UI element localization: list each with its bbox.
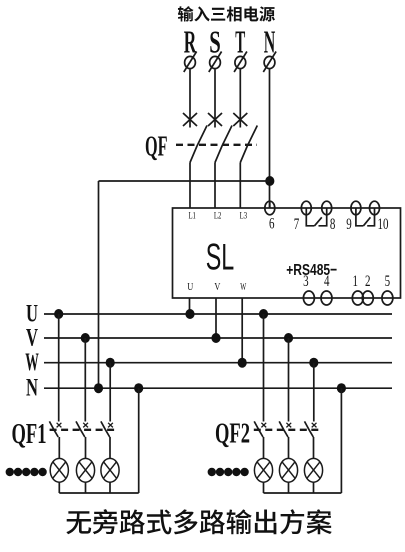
svg-text:1: 1 [353,273,359,290]
svg-text:10: 10 [378,216,389,233]
input terminal R (circle with slash) [184,52,197,73]
wire QF2 pole 2 drop from bus [288,338,290,422]
svg-text:V: V [214,282,220,293]
wire QF lever to L-terminal T [239,163,241,209]
wire QF lever to L-terminal R [189,163,191,209]
svg-text:7: 7 [294,216,300,233]
input terminal T (circle with slash) [234,52,247,73]
wire SL output U to U bus [189,298,191,314]
junction node N to QF2 return [337,383,346,393]
breaker QF mechanical linkage (dashed) [176,144,257,146]
junction node V source [211,333,220,343]
wire QF1 pole 3 lever to lamp [109,437,111,458]
terminal 7 [301,201,311,215]
wire S terminal to breaker contact [214,70,216,128]
svg-text:S: S [209,23,221,59]
controller SL box [173,208,401,298]
junction node V to QF1 [81,333,90,343]
input terminal N (circle with slash) [263,52,276,73]
svg-text:L2: L2 [214,212,222,222]
svg-text:T: T [235,23,245,59]
junction node N top [265,176,274,186]
svg-text:U: U [187,282,193,293]
ellipsis dots (QF2 more outputs) [208,468,249,476]
wire N bus to QF2 rail [340,388,342,493]
terminal 2 [362,291,373,305]
bus line U [44,313,392,315]
lamp QF1 output 3 [101,458,119,482]
wire lamp QF2-3 to neutral rail [313,482,315,493]
svg-text:2: 2 [365,273,371,290]
svg-text:9: 9 [346,216,352,233]
svg-text:QF1: QF1 [12,418,47,450]
wire T terminal to breaker contact [239,70,241,128]
wire lamp QF2-2 to neutral rail [288,482,290,493]
wire N feed down to N bus [98,181,100,388]
wire N junction to left [99,180,270,182]
wire N input down to junction [269,70,271,209]
junction node W to QF2 [309,358,318,368]
wire QF2 pole 1 drop from bus [263,314,265,422]
wire N bus to QF1 rail [138,388,140,493]
input terminal S (circle with slash) [209,52,222,73]
wire lamp QF2-1 to neutral rail [263,482,265,493]
wire QF2 pole 1 lever to lamp [263,437,265,458]
terminal 3 [303,291,314,305]
terminal 4 [321,291,332,305]
svg-text:SL: SL [206,237,235,278]
wire SL output V to V bus [215,298,217,338]
svg-text:L1: L1 [188,212,196,222]
breaker QF2 pole 2 contact x mark [286,423,291,428]
wire lamp QF1-1 to neutral rail [58,482,60,493]
wire QF1 pole 1 drop from bus [58,314,60,422]
ellipsis dots (QF1 more outputs) [6,468,47,476]
bus line N [44,387,392,389]
title text 输入三相电源 [178,6,275,21]
breaker QF1 pole 3 contact x mark [108,423,113,428]
svg-text:5: 5 [385,273,391,290]
svg-text:U: U [26,301,38,328]
wire QF2 pole 2 lever to lamp [288,437,290,458]
lamp QF1 output 1 [50,458,68,482]
svg-text:QF2: QF2 [215,418,250,450]
terminal 9 [351,201,361,215]
svg-text:4: 4 [324,273,330,290]
breaker QF2 pole 3 lever [305,421,314,437]
lamp QF2 output 3 [304,458,322,482]
breaker QF2 pole 2 lever [279,421,288,437]
junction node W source [238,358,247,368]
svg-text:W: W [240,282,246,293]
wire QF1 pole 3 drop from bus [109,363,111,422]
svg-text:6: 6 [269,216,275,233]
junction node N feed [94,383,103,393]
breaker contact X mark R phase [183,113,197,126]
breaker QF2 pole 1 lever [254,421,263,437]
lamp QF2 output 1 [254,458,272,482]
breaker QF2 linkage (dashed) [254,429,319,431]
breaker QF1 pole 2 contact x mark [83,423,88,428]
wire QF1 pole 2 lever to lamp [85,437,87,458]
neutral rail QF2 [264,492,342,494]
svg-text:8: 8 [330,216,336,233]
terminal 8 [322,201,332,215]
breaker QF1 linkage (dashed) [50,429,115,431]
breaker QF lever R phase [190,126,207,163]
relay contact between terminals 9 and 10 [356,208,375,226]
wire QF1 pole 2 drop from bus [84,338,86,422]
breaker QF1 pole 1 contact x mark [57,423,62,428]
wire lamp QF1-2 to neutral rail [85,482,87,493]
breaker QF1 pole 1 lever [49,421,58,437]
svg-text:L3: L3 [240,212,248,222]
wire QF1 pole 1 lever to lamp [58,437,60,458]
terminal 5 [382,291,393,305]
breaker contact X mark S phase [208,113,222,126]
lamp QF1 output 2 [76,458,94,482]
wire SL output W to W bus [241,298,243,363]
svg-text:QF: QF [145,132,168,163]
svg-text:N: N [264,23,276,59]
terminal 1 [352,291,363,305]
junction node U to QF2 [259,309,268,319]
neutral rail QF1 [59,492,138,494]
breaker contact X mark T phase [233,113,247,126]
relay contact between terminals 7 and 8 [306,208,326,226]
breaker QF lever S phase [215,126,232,163]
breaker QF lever T phase [240,126,257,163]
terminal 6 [265,201,275,215]
wire QF2 pole 3 lever to lamp [313,437,315,458]
bus line V [44,337,392,339]
breaker QF2 pole 3 contact x mark [312,423,317,428]
wire R terminal to breaker contact [189,70,191,128]
breaker QF1 pole 3 lever [101,421,110,437]
svg-text:V: V [26,325,38,352]
junction node V to QF2 [284,333,293,343]
breaker QF2 pole 1 contact x mark [261,423,266,428]
bus line W [44,362,392,364]
breaker QF1 pole 2 lever [76,421,85,437]
svg-text:3: 3 [303,273,309,290]
terminal 10 [370,201,380,215]
svg-text:W: W [25,349,39,376]
wire QF2 pole 3 drop from bus [313,363,315,422]
lamp QF2 output 2 [279,458,297,482]
caption text 无旁路式多路输出方案 [66,509,331,534]
junction node U to QF1 [54,309,63,319]
wire lamp QF1-3 to neutral rail [109,482,111,493]
junction node W to QF1 [106,358,115,368]
junction node U source [185,309,194,319]
wire QF lever to L-terminal S [214,163,216,209]
junction node N to QF1 return [134,383,143,393]
svg-text:N: N [26,375,38,402]
